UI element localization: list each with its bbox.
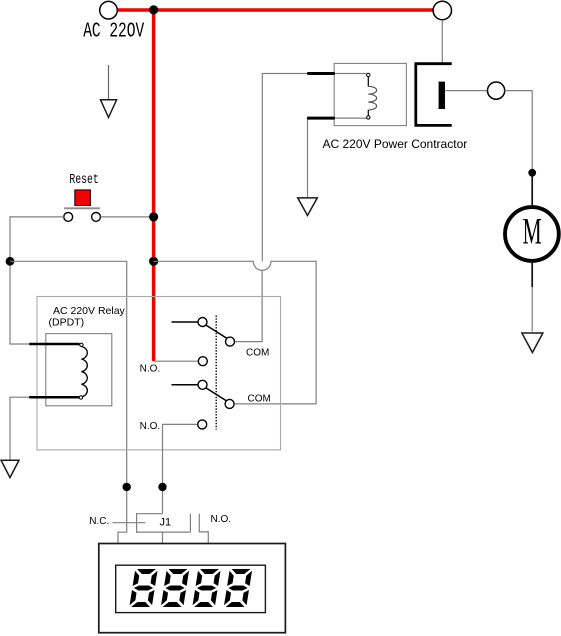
label N.C. xyxy=(89,516,109,527)
wire contactor coil top lead xyxy=(262,74,366,262)
svg-text:(DPDT): (DPDT) xyxy=(49,317,85,329)
junction red mid xyxy=(149,257,158,266)
wire red vertical drop xyxy=(152,10,156,361)
label COM1 xyxy=(246,347,269,358)
arrow relay gnd xyxy=(1,460,19,477)
switch SW1 pole contact xyxy=(198,318,207,327)
svg-text:COM: COM xyxy=(248,394,271,405)
reset contact left xyxy=(64,213,73,222)
svg-text:AC 22OV: AC 22OV xyxy=(83,21,144,44)
svg-text:AC 220V Relay: AC 220V Relay xyxy=(53,305,126,317)
contactor coil bottom bar xyxy=(307,117,335,120)
wire meter middle lead xyxy=(162,532,164,543)
switch SW2 com contact xyxy=(225,399,234,408)
arrow source head xyxy=(101,100,117,118)
connector J1 nc lead xyxy=(113,522,146,524)
wire branch to J1 left xyxy=(10,261,127,543)
relay coil bottom bar xyxy=(29,396,79,399)
svg-text:COM: COM xyxy=(246,347,269,358)
label DPDT xyxy=(49,317,85,329)
wire red to NO1 xyxy=(154,360,198,362)
wire NO2 to J1 xyxy=(163,424,198,513)
wire reset right to red xyxy=(101,216,154,218)
junction rail dot xyxy=(528,169,536,177)
relay box xyxy=(37,297,281,450)
wire motor down xyxy=(531,261,533,331)
svg-text:N.O.: N.O. xyxy=(140,363,161,374)
switch SW2 pole stub xyxy=(172,384,199,386)
junction J1 right dot xyxy=(158,483,166,491)
contactor coil top bar xyxy=(307,72,335,75)
junction J1 left dot xyxy=(123,483,131,491)
meter digit 4 xyxy=(224,569,253,607)
connector J1 no pin right stroke xyxy=(199,514,208,544)
svg-text:N.O.: N.O. xyxy=(211,514,232,525)
label NO2 xyxy=(140,421,161,432)
label AC 220V Power Contractor xyxy=(323,137,468,151)
switch SW1 arm xyxy=(206,325,227,338)
wire T2 to contactor xyxy=(441,20,443,63)
switch SW1 com contact xyxy=(226,337,235,346)
svg-text:M: M xyxy=(523,212,542,253)
motor M1 xyxy=(505,207,559,261)
arrow load head xyxy=(522,333,543,353)
switch SW1 pole stub xyxy=(172,321,199,323)
meter display window xyxy=(116,565,266,612)
wire red junction right with hop xyxy=(154,261,317,404)
junction left rail xyxy=(6,257,15,266)
label AC 220V xyxy=(83,21,144,44)
switch SW2 no contact xyxy=(198,420,207,429)
wire right rail xyxy=(505,91,533,207)
switch SW2 arm xyxy=(206,388,227,401)
wire contactor coil bottom lead xyxy=(308,118,367,197)
label AC 220V Relay xyxy=(53,305,126,317)
terminal T3 xyxy=(488,82,505,99)
label J1 xyxy=(160,517,172,529)
switch SW2 pole contact xyxy=(198,380,207,389)
meter digit 3 xyxy=(192,569,221,607)
svg-text:AC 220V Power Contractor: AC 220V Power Contractor xyxy=(323,137,468,151)
label COM2 xyxy=(248,394,271,405)
contactor bracket xyxy=(416,64,452,126)
relay coil winding xyxy=(79,343,87,399)
wire contact to T3 xyxy=(445,90,487,92)
svg-text:Reset: Reset xyxy=(69,173,98,188)
contactor contact bar xyxy=(439,82,445,109)
svg-text:N.O.: N.O. xyxy=(140,421,161,432)
label Reset xyxy=(69,173,98,188)
connector J1 no pin left stroke xyxy=(189,514,191,532)
connector J1 common pin xyxy=(137,514,191,532)
relay coil top bar xyxy=(29,343,79,346)
svg-text:J1: J1 xyxy=(160,517,172,529)
reset contact right xyxy=(92,213,101,222)
junction reset red xyxy=(149,212,158,221)
terminal T1 xyxy=(100,1,118,19)
label NO1 xyxy=(140,363,161,374)
wire hop to switch1 com xyxy=(235,270,262,341)
switch SW1 no contact xyxy=(198,357,207,366)
svg-text:N.C.: N.C. xyxy=(89,516,109,527)
arrow source stem xyxy=(108,65,110,100)
junction J-top xyxy=(149,5,158,14)
reset button cap xyxy=(75,190,91,206)
label N.O. J1 xyxy=(211,514,232,525)
relay coil box xyxy=(46,334,112,406)
terminal T2 xyxy=(433,1,451,19)
contactor coil box xyxy=(334,63,406,125)
wire reset left to relay coil xyxy=(10,217,64,344)
contactor coil winding xyxy=(367,73,377,119)
reset button bar xyxy=(64,207,100,209)
panel meter box xyxy=(99,544,286,633)
arrow contactor coil gnd xyxy=(298,198,318,216)
relay coil bottom lead xyxy=(10,397,30,460)
separator dotted line xyxy=(215,316,217,430)
meter digit 1 xyxy=(129,569,158,607)
wire phase L red top xyxy=(117,8,433,12)
meter digit 2 xyxy=(161,569,190,607)
